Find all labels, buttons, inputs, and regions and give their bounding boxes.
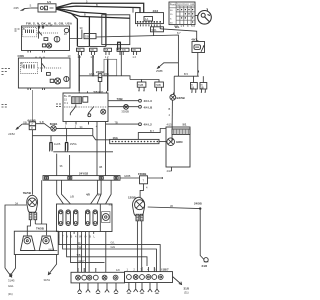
- wire module pin to line1: [159, 26, 161, 29]
- svg-text:24Y/52: 24Y/52: [79, 172, 89, 176]
- ground left bottom: [5, 268, 15, 288]
- panel output wire row d: [71, 234, 105, 263]
- relay left margin marks: [56, 104, 61, 107]
- wire fan L4: [56, 9, 130, 19]
- wire branch to fuse column: [88, 17, 90, 46]
- svg-text:3300B: 3300B: [121, 109, 129, 113]
- svg-text:53/1: 53/1: [152, 28, 158, 32]
- svg-text:B4/5: B4/5: [49, 249, 54, 251]
- wire fan L1: [56, 3, 144, 12]
- terminal wire 4/4 L3: [108, 97, 152, 103]
- svg-text:36: 36: [98, 192, 102, 196]
- svg-text:1 2: 1 2: [132, 55, 136, 59]
- wire fan L2: [56, 6, 140, 13]
- fuse label box 7/8 c: [104, 48, 112, 59]
- wire 6A/9B bottom branch: [32, 130, 92, 136]
- connector box at 24/9B: [104, 59, 117, 75]
- relay bottom pin stubs: [65, 122, 106, 176]
- wire wide fuse pin down: [120, 52, 122, 76]
- wire bar to FR/2B: [120, 177, 140, 179]
- svg-text:B: B: [23, 27, 25, 31]
- control module 4/16: [136, 9, 164, 23]
- wire 6A/9B right with lamp 6/9B1: [36, 120, 93, 131]
- wires bar down to panel: [57, 165, 111, 204]
- svg-text:9/1: 9/1: [109, 203, 113, 207]
- svg-text:24/5B: 24/5B: [194, 202, 202, 206]
- wire FR/2B to bulb 12/5B: [140, 188, 143, 198]
- wire fan L5: [56, 9, 77, 46]
- wire bulb 12/5B to junction 24/5B: [148, 202, 202, 210]
- ignition switch table: [169, 2, 195, 25]
- box1 small component: [44, 38, 48, 41]
- fuse label box 7/8 b: [90, 48, 98, 59]
- wire into relay 1/1: [31, 7, 38, 9]
- fuse 11/25: [49, 136, 61, 152]
- svg-text:G4/L: G4/L: [8, 284, 14, 288]
- wire 6A/9B down to bulb 7B/5B: [31, 136, 33, 195]
- headlamp left: [21, 236, 36, 251]
- svg-text:7B/5B: 7B/5B: [23, 191, 31, 195]
- relay far-left margin marks: [2, 105, 7, 108]
- FR/2B bottom stub: [144, 184, 149, 190]
- wire lamp to unit 5/1: [171, 100, 173, 141]
- svg-text:8.7: 8.7: [177, 31, 181, 35]
- svg-text:7/8: 7/8: [77, 48, 81, 52]
- box1 indicator lamp: [42, 43, 51, 48]
- panel socket down wire: [105, 232, 107, 273]
- headlamp right: [39, 236, 54, 251]
- box1 internal dashed unit: [22, 27, 36, 37]
- panel output wire row c: [67, 234, 147, 266]
- wire box2 to 6A/9B: [31, 90, 33, 122]
- svg-text:7/3B: 7/3B: [117, 97, 123, 101]
- connector strip A: [71, 268, 125, 283]
- relay sub box: [83, 97, 88, 103]
- svg-text:GB: GB: [23, 120, 27, 124]
- svg-text:7/2B: 7/2B: [138, 83, 144, 87]
- fuse label box 7/8 e: [132, 48, 141, 59]
- wire fan L3: [56, 8, 106, 46]
- svg-text:B.5: B.5: [184, 72, 188, 76]
- panel fuse strip 3: [74, 210, 78, 226]
- headlamp internal wire: [27, 250, 57, 252]
- ground 24/52 with unit 6A/9B: [8, 120, 29, 136]
- svg-text:B+ 30: B+ 30: [64, 94, 71, 98]
- wire bulb left to ground: [5, 201, 26, 268]
- svg-text:4/4 L2: 4/4 L2: [144, 123, 153, 127]
- fuse 7/2B mid a: [130, 80, 146, 92]
- svg-text:1B: 1B: [200, 86, 203, 90]
- svg-text:S.B: S.B: [40, 120, 44, 124]
- bulb 12/5B (side marker): [128, 196, 145, 221]
- wire FR/2B right stub: [148, 177, 163, 179]
- svg-text:30 15 X 50: 30 15 X 50: [174, 24, 196, 28]
- unit 24/9B: [96, 70, 104, 82]
- strip A grounds: [77, 283, 118, 294]
- wire lamp line down: [92, 128, 94, 135]
- terminal wire 4/4 L2: [106, 121, 152, 127]
- svg-text:G/H: G/H: [111, 245, 116, 249]
- relay box 7/8 (DRL relay): [63, 90, 108, 122]
- box1 bottom pins: [28, 51, 45, 53]
- relay contact b: [88, 106, 94, 115]
- relay coil (hatched): [72, 97, 82, 104]
- wire line1 to relay 49/1: [160, 29, 197, 42]
- connector strip 16A: [110, 136, 159, 144]
- svg-text:7/8: 7/8: [90, 48, 94, 52]
- svg-text:4/10: 4/10: [167, 169, 173, 173]
- box1 right-top socket: [64, 28, 68, 32]
- svg-text:1B: 1B: [191, 86, 194, 90]
- unit FR/2B: [138, 172, 148, 184]
- wire fuse 15/5A to bar: [69, 155, 71, 176]
- box1 switch contact: [39, 26, 43, 39]
- svg-text:7B: 7B: [115, 121, 118, 125]
- wire junction down to clamp 24/2: [200, 209, 204, 260]
- svg-text:11/25: 11/25: [54, 142, 61, 146]
- fuse 7/1B right a: [191, 76, 198, 92]
- wire fuse column c down to relay: [107, 59, 109, 92]
- relay dashed line: [64, 106, 107, 108]
- svg-text:31/45: 31/45: [8, 279, 15, 283]
- panel fuse strip 4: [86, 210, 90, 226]
- svg-text:4/4 L3: 4/4 L3: [144, 99, 153, 103]
- svg-text:S: S: [30, 4, 32, 8]
- box2 indicator lamp: [50, 78, 60, 84]
- fuse 7/1B right b: [200, 76, 207, 92]
- terminal wire 4/4 LB with lamp 3300B: [108, 105, 152, 114]
- wire 24/9B to fuse pair: [102, 76, 130, 80]
- svg-text:2/35: 2/35: [14, 6, 20, 10]
- panel straight down wires: [78, 234, 89, 272]
- light switch module box 1: [22, 25, 70, 51]
- svg-text:GR/B: GR/B: [124, 174, 131, 178]
- fuse 15/5A: [65, 128, 77, 151]
- box2 internal dashed unit: [21, 61, 38, 73]
- panel fuse strip 1: [59, 210, 63, 226]
- svg-text:4/1B: 4/1B: [89, 72, 95, 76]
- main bus wire to right side: [96, 35, 178, 76]
- panel divider: [99, 204, 101, 232]
- svg-text:FW, S, N, DK, HL, B, GB, USA: FW, S, N, DK, HL, B, GB, USA: [26, 22, 73, 26]
- wire from box1 to bus pocket: [70, 30, 82, 39]
- svg-text:X 1: X 1: [64, 101, 68, 105]
- junction block (tall box center-top): [102, 15, 130, 45]
- box1 top pin circles: [38, 27, 40, 29]
- wire to strip 16A: [93, 136, 110, 140]
- wire module pin to bus: [153, 26, 155, 36]
- ground from headlamp box left: [10, 255, 16, 277]
- strip B top pins: [142, 267, 154, 272]
- strip B grounds: [127, 283, 160, 294]
- svg-text:7/2B: 7/2B: [155, 83, 161, 87]
- light switch module box 2 (CDN): [18, 54, 71, 88]
- svg-text:1A: 1A: [145, 17, 148, 21]
- box2 bottom pins: [28, 88, 45, 90]
- unit 6A/9B: [28, 118, 36, 129]
- inline connector box on bus: [84, 34, 96, 39]
- module 4/16 bottom pin row: [137, 21, 161, 26]
- panel socket circle: [102, 212, 110, 223]
- svg-text:T/B: T/B: [77, 253, 81, 257]
- connector bar 24Y/52: [43, 172, 120, 181]
- svg-text:7/8: 7/8: [132, 48, 136, 52]
- clamp 24/2: [202, 258, 209, 268]
- svg-text:4B: 4B: [99, 165, 102, 169]
- bulb 7B/5B (front parking lamp): [23, 191, 38, 220]
- panel output wire row b: [63, 234, 157, 272]
- box2 left margin marks: [2, 69, 11, 75]
- relay terminal text rows: [64, 94, 71, 105]
- svg-text:1 2: 1 2: [105, 55, 109, 59]
- strip A top pins: [78, 268, 96, 272]
- wire 49/1 to B+ rail: [197, 53, 200, 77]
- svg-text:53/5: 53/5: [85, 35, 91, 39]
- svg-text:4/5: 4/5: [86, 192, 90, 196]
- box1 socket circle: [54, 36, 60, 42]
- ignition switch symbol: [195, 8, 211, 24]
- svg-text:B: B: [96, 3, 98, 7]
- box2 socket circle: [64, 76, 69, 81]
- fuse 7/2B mid b: [142, 80, 164, 92]
- module top stub: [132, 8, 134, 13]
- wire fuse 11/25 to bar: [56, 154, 58, 176]
- svg-text:25/88: 25/88: [156, 69, 163, 73]
- wire fuse column a down to relay: [78, 55, 80, 91]
- bulb 12/5B prong wires: [137, 221, 141, 272]
- box1 left margin marks: [15, 29, 20, 31]
- relay contact a: [70, 104, 76, 115]
- B+ distribution wire: [174, 75, 199, 77]
- svg-text:31/51: 31/51: [44, 278, 51, 282]
- wire fuse bottoms rail: [53, 151, 113, 153]
- unit 5/1 bottom stub: [167, 167, 173, 173]
- unit 5/1 (generator box): [166, 122, 190, 167]
- panel output wire row a: [59, 234, 160, 272]
- svg-text:G/L: G/L: [111, 241, 116, 245]
- relay top pin stubs: [79, 91, 106, 93]
- svg-text:1 T A B 4 W O B L: 1 T A B 4 W O B L: [58, 235, 96, 239]
- wire fuse column b down to relay: [92, 55, 94, 76]
- svg-text:B.7: B.7: [150, 129, 154, 133]
- svg-text:15/5A: 15/5A: [70, 142, 77, 146]
- svg-text:B4/5B: B4/5B: [177, 96, 185, 100]
- svg-text:L/B: L/B: [70, 194, 74, 198]
- svg-text:4/15: 4/15: [167, 122, 173, 126]
- wire 24/9B bottom to relay: [99, 82, 101, 94]
- svg-text:Ignition sw: Ignition sw: [177, 2, 194, 6]
- wire strip to unit 5/1 lamp: [159, 141, 167, 143]
- svg-text:24/2: 24/2: [202, 264, 208, 268]
- lamp B4/5B: [170, 76, 185, 100]
- wire into 24/9B: [79, 75, 98, 77]
- panel fuse strip 2: [66, 210, 70, 226]
- svg-text:31/5: 31/5: [184, 287, 190, 291]
- svg-text:24/52: 24/52: [8, 132, 15, 136]
- fuse label box 7/8 a: [77, 48, 85, 59]
- box1 dashed bus: [37, 32, 58, 34]
- svg-text:4/4 LB: 4/4 LB: [144, 105, 153, 109]
- headlamp box: [14, 231, 58, 254]
- strip B ground tail 31/5: [173, 277, 190, 295]
- node 2/35 lead-in: [14, 4, 32, 11]
- ground from headlamp box right: [44, 255, 57, 282]
- panel bottom pins: [58, 232, 96, 239]
- bulb prong wires to headlamps: [27, 220, 35, 236]
- relay pin circle a: [88, 114, 91, 117]
- fuse panel (bulb failure box): [57, 204, 113, 232]
- svg-text:Posit: Posit: [170, 2, 176, 6]
- fuse label box 7/8 d (wide): [117, 48, 129, 55]
- relay 1/1 (top-left control unit): [38, 0, 56, 12]
- svg-text:1B/7: 1B/7: [163, 268, 169, 272]
- fuse row rail: [77, 45, 106, 47]
- svg-text:1/9: 1/9: [116, 268, 120, 272]
- feed wire to connector strip 16A: [138, 129, 166, 140]
- fuse symbol bold: [117, 42, 121, 50]
- box2 dashed bus: [38, 67, 62, 69]
- svg-text:(31): (31): [8, 292, 13, 296]
- svg-text:B: B: [169, 107, 171, 111]
- panel fuse strip 5: [93, 210, 97, 226]
- relay lamp: [101, 109, 106, 114]
- wire bar-left down to headlamp feed: [35, 180, 46, 235]
- svg-text:5/1: 5/1: [183, 122, 187, 126]
- svg-text:7/8: 7/8: [105, 48, 109, 52]
- box2 small component: [47, 73, 51, 76]
- svg-text:T4/5B: T4/5B: [36, 226, 44, 230]
- connector strip B: [125, 272, 173, 283]
- svg-text:49/1: 49/1: [191, 37, 197, 41]
- svg-text:(31): (31): [184, 291, 189, 295]
- svg-text:7/8 7/8: 7/8 7/8: [118, 48, 126, 52]
- ground 25/88: [156, 63, 178, 73]
- svg-text:GRN: GRN: [176, 140, 182, 144]
- inline connector label box on line1: [151, 27, 164, 32]
- box2 switch contact: [42, 58, 46, 72]
- svg-text:B: B: [84, 13, 86, 17]
- relay 49/1: [191, 37, 204, 52]
